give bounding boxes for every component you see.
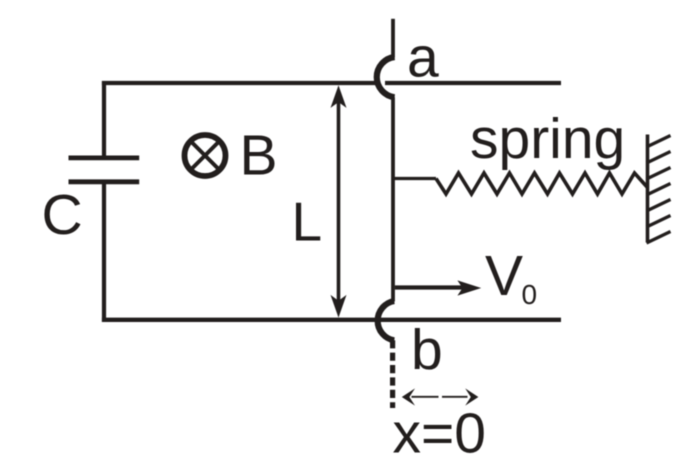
- capacitor C bottom plate: [69, 179, 140, 184]
- svg-text:B: B: [240, 123, 278, 187]
- wire top rail left section: [102, 81, 380, 85]
- field symbol B: circle with X (into page): [185, 135, 226, 176]
- rod upper segment: [391, 19, 395, 58]
- svg-text:0: 0: [522, 279, 538, 310]
- x measure arrow left head: [402, 388, 415, 405]
- wire bottom rail: [102, 318, 561, 322]
- L dimension arrow line: [337, 100, 341, 303]
- x measure arrow right line: [442, 396, 468, 398]
- wall hatch 2: [647, 152, 671, 164]
- contact arc b: [378, 301, 395, 340]
- V0 arrow line: [395, 285, 468, 289]
- svg-text:spring: spring: [470, 107, 625, 171]
- rod dashed extension below b: [390, 340, 395, 408]
- wall hatch 5: [647, 200, 671, 212]
- svg-text:C: C: [42, 183, 83, 247]
- wall hatch 1: [647, 136, 671, 148]
- svg-text:a: a: [407, 26, 439, 90]
- rod middle segment: [391, 97, 395, 301]
- L arrow bottom head: [331, 295, 347, 318]
- wire left vertical bottom segment: [102, 182, 106, 322]
- svg-text:b: b: [411, 318, 443, 382]
- wall hatch 6: [647, 216, 671, 228]
- contact arc a: [377, 57, 395, 97]
- wire left vertical top segment: [102, 81, 106, 158]
- L arrow top head: [331, 85, 347, 108]
- wall hatch 3: [647, 168, 671, 180]
- svg-text:V: V: [485, 244, 523, 308]
- spring zigzag: [436, 173, 648, 194]
- wall hatch 4: [647, 184, 671, 196]
- wire spring link from rod: [394, 177, 436, 180]
- wall hatch 7: [647, 232, 671, 244]
- wall vertical line: [646, 135, 650, 243]
- wire top rail right section: [385, 81, 561, 85]
- V0 arrow head: [457, 280, 481, 295]
- svg-text:x=0: x=0: [393, 402, 487, 466]
- x measure arrow right head: [465, 388, 478, 405]
- capacitor C top plate: [69, 155, 140, 160]
- x measure arrow left line: [412, 396, 439, 398]
- svg-text:L: L: [292, 190, 323, 252]
